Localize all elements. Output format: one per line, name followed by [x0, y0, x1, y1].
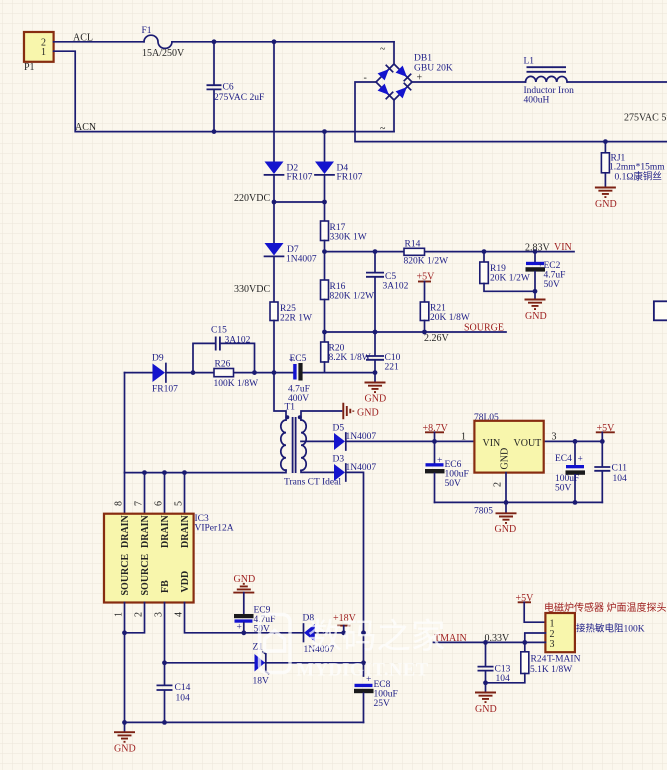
svg-text:MYDIGIT.NET: MYDIGIT.NET: [297, 661, 429, 681]
svg-text:7: 7: [134, 501, 145, 506]
junction C10/gnd row: [373, 370, 378, 375]
svg-text:SOURGE: SOURGE: [464, 323, 504, 334]
junction VIN row/C5: [373, 249, 378, 254]
svg-text:Trans CT Ideal: Trans CT Ideal: [284, 478, 341, 488]
wire SOURGE rail: [325, 331, 507, 333]
svg-text:GND: GND: [357, 408, 379, 419]
svg-text:SOURCE: SOURCE: [120, 553, 131, 595]
wire feedback row: [125, 373, 376, 473]
svg-text:~: ~: [380, 44, 386, 55]
watermark logo icon: [260, 615, 291, 673]
fuse F1: [142, 26, 186, 59]
svg-text:1.2mm*15mm: 1.2mm*15mm: [609, 162, 665, 172]
svg-text:400uH: 400uH: [524, 96, 550, 106]
connector J2 sensor: [545, 613, 575, 652]
svg-text:EC4: EC4: [555, 454, 572, 464]
capacitor C13: [478, 642, 511, 684]
junction D9/C15: [191, 370, 196, 375]
wire Z1 row: [165, 662, 364, 664]
junction drain pin7: [142, 470, 147, 475]
svg-text:R21: R21: [430, 304, 446, 314]
wire bottom ground rail: [125, 721, 364, 723]
junction VIN row/EC2: [533, 249, 538, 254]
junction VIN78 rail/EC6: [432, 439, 437, 444]
svg-text:+: +: [578, 455, 583, 465]
svg-text:8: 8: [114, 501, 125, 506]
svg-text:L1: L1: [524, 57, 535, 67]
wire IC3 bottom pins 1,2: [125, 603, 145, 723]
wire RJ1 top: [604, 142, 606, 153]
svg-text:C15: C15: [211, 326, 227, 336]
svg-text:50V: 50V: [555, 484, 572, 494]
junction ACL/D2: [272, 39, 277, 44]
junction VIN row/R17: [322, 249, 327, 254]
wire C10 gnd stem: [374, 373, 376, 382]
resistor R20: [321, 332, 371, 373]
svg-text:1: 1: [41, 47, 46, 58]
svg-text:221: 221: [385, 363, 400, 373]
svg-text:SOURCE: SOURCE: [140, 553, 151, 595]
junction gnd rail/EC4: [573, 500, 578, 505]
svg-text:3A102: 3A102: [225, 336, 251, 346]
ground GND under 7805: [495, 513, 517, 535]
ground GND under EC2: [525, 300, 547, 323]
svg-text:D9: D9: [152, 354, 164, 364]
svg-text:C13: C13: [495, 665, 511, 675]
svg-text:0.33V: 0.33V: [485, 633, 511, 644]
junction SOURGE/C10: [373, 330, 378, 335]
inductor L1: [524, 57, 575, 106]
svg-text:DRAIN: DRAIN: [180, 514, 191, 548]
resistor R26: [214, 360, 259, 390]
junction EC2/R19 gnd: [533, 289, 538, 294]
svg-text:20K 1/2W: 20K 1/2W: [490, 274, 530, 284]
junction 220VDC/D4: [322, 200, 327, 205]
wire bridge minus to neg rail: [355, 82, 667, 142]
junction VIN78 rail/EC4: [573, 439, 578, 444]
power port +5V at R21: [417, 272, 436, 303]
svg-text:5.1K 1/8W: 5.1K 1/8W: [530, 665, 572, 675]
wire bridge AC bottom: [393, 100, 395, 132]
svg-text:GND: GND: [365, 394, 387, 405]
resistor R17: [321, 221, 367, 252]
capacitor EC4: [555, 441, 585, 502]
svg-text:数码之家: 数码之家: [308, 618, 446, 656]
resistor R19: [480, 252, 535, 292]
svg-text:820K 1/2W: 820K 1/2W: [404, 256, 449, 266]
diode D5 1N4007: [333, 424, 377, 451]
svg-text:DRAIN: DRAIN: [120, 514, 131, 548]
resistor R14: [404, 240, 449, 267]
ground GND sideways at T1: [343, 403, 378, 420]
junction SOURGE/R16: [322, 330, 327, 335]
svg-text:FB: FB: [160, 580, 171, 593]
junction VDD/EC9: [241, 630, 246, 635]
junction ACN/D4: [322, 129, 327, 134]
junction neg rail/RJ1: [603, 139, 608, 144]
capacitor C6: [207, 42, 265, 132]
resistor R24 T-MAIN: [486, 652, 581, 683]
svg-text:+: +: [437, 456, 442, 466]
svg-text:50V: 50V: [254, 625, 271, 635]
svg-text:VIN: VIN: [554, 242, 572, 253]
wire 78L05 ground rail: [435, 501, 603, 503]
capacitor C15: [193, 326, 255, 373]
svg-text:220VDC: 220VDC: [234, 193, 270, 204]
junction Z1/18V column: [361, 660, 366, 665]
svg-text:2: 2: [134, 612, 145, 617]
svg-text:C5: C5: [385, 272, 396, 282]
svg-text:104: 104: [176, 694, 191, 704]
diode D8 1N4007: [303, 614, 344, 656]
diode D9 FR107: [152, 354, 178, 395]
svg-text:R25: R25: [280, 304, 296, 314]
svg-text:50V: 50V: [544, 280, 561, 290]
svg-text:5: 5: [174, 501, 185, 506]
svg-text:C11: C11: [612, 464, 628, 474]
svg-text:DRAIN: DRAIN: [160, 514, 171, 548]
ground GND bottom left: [114, 732, 136, 754]
junction drain pin6: [162, 470, 167, 475]
svg-text:FR107: FR107: [287, 173, 313, 183]
resistor R21: [420, 302, 470, 332]
capacitor C14: [157, 683, 191, 722]
wire 220VDC rail: [274, 201, 325, 203]
svg-text:1N4007: 1N4007: [346, 463, 377, 473]
svg-text:+: +: [237, 623, 242, 633]
svg-text:EC6: EC6: [445, 460, 462, 470]
svg-text:DB1: DB1: [414, 54, 432, 64]
resistor R25: [270, 302, 312, 373]
svg-text:VDD: VDD: [180, 571, 191, 593]
svg-text:100uF: 100uF: [445, 470, 469, 480]
svg-text:25V: 25V: [374, 699, 391, 709]
svg-text:1: 1: [461, 432, 466, 443]
wire FB column: [164, 603, 166, 686]
wire D4 anode: [324, 132, 326, 162]
svg-text:8.2K 1/8W: 8.2K 1/8W: [329, 353, 371, 363]
svg-text:1N4007: 1N4007: [346, 432, 377, 442]
svg-text:+: +: [538, 261, 543, 271]
regulator U2 78L05: [474, 413, 544, 473]
junction bottom rail/C14: [162, 720, 167, 725]
svg-text:D7: D7: [287, 245, 299, 255]
svg-text:~: ~: [380, 124, 386, 135]
svg-text:104: 104: [613, 474, 628, 484]
junction gnd rail/pin2: [504, 500, 509, 505]
svg-text:3: 3: [154, 612, 165, 617]
capacitor C5: [366, 252, 409, 332]
capacitor EC9: [234, 593, 275, 635]
svg-text:C6: C6: [223, 83, 234, 93]
wire T1 center tap: [301, 440, 334, 442]
junction C13/R24 gnd: [483, 680, 488, 685]
wire R17 top: [324, 202, 326, 221]
wire VIN row: [325, 251, 575, 253]
svg-text:20K 1/8W: 20K 1/8W: [430, 313, 470, 323]
power port +8.7V: [423, 423, 449, 441]
wire sensor pin2: [525, 633, 546, 652]
resistor R16: [321, 252, 375, 332]
svg-text:275VAC 2uF: 275VAC 2uF: [214, 93, 264, 103]
svg-text:1: 1: [114, 612, 125, 617]
svg-text:R16: R16: [330, 282, 346, 292]
junction TMAIN/R24: [522, 640, 527, 645]
svg-text:330K 1W: 330K 1W: [330, 233, 367, 243]
junction ACL/C6: [212, 39, 217, 44]
wire bridge AC top: [393, 42, 395, 64]
svg-text:GND: GND: [595, 199, 617, 210]
junction +5V C11 corner: [600, 439, 605, 444]
svg-text:ACL: ACL: [73, 33, 93, 44]
wire 78L05 pin2: [505, 473, 507, 503]
wire D5 to VIN78 rail: [346, 440, 603, 442]
wire D3 to 18V column: [346, 472, 364, 676]
bridge rectifier DB1 GBU 20K: [376, 54, 453, 101]
svg-text:VIPer12A: VIPer12A: [195, 524, 234, 534]
svg-text:T1: T1: [285, 403, 296, 413]
svg-text:F1: F1: [142, 26, 152, 36]
junction TMAIN/C13: [483, 640, 488, 645]
svg-text:2.83V: 2.83V: [525, 243, 551, 254]
svg-text:330VDC: 330VDC: [234, 284, 270, 295]
svg-text:D3: D3: [333, 455, 345, 465]
svg-text:1N4007: 1N4007: [286, 255, 317, 265]
svg-text:100uF: 100uF: [374, 690, 398, 700]
svg-text:GND: GND: [500, 448, 511, 470]
svg-text:100uF: 100uF: [555, 474, 579, 484]
svg-text:C10: C10: [385, 353, 401, 363]
wire L1 to right edge: [567, 81, 667, 83]
svg-text:P1: P1: [24, 62, 35, 73]
svg-text:R19: R19: [490, 264, 506, 274]
svg-text:3: 3: [550, 639, 555, 650]
svg-text:FR107: FR107: [337, 173, 363, 183]
ground GND above EC9: [233, 574, 255, 593]
wire T1 secondary top: [301, 411, 342, 420]
svg-text:100K 1/8W: 100K 1/8W: [214, 379, 259, 389]
svg-text:VOUT: VOUT: [514, 438, 542, 449]
svg-text:4.7uF: 4.7uF: [544, 271, 566, 281]
capacitor EC5: [288, 354, 310, 404]
svg-text:R20: R20: [329, 344, 345, 354]
capacitor EC6: [425, 441, 469, 502]
svg-text:DRAIN: DRAIN: [140, 514, 151, 548]
svg-text:EC8: EC8: [374, 680, 391, 690]
wire VDD row: [185, 603, 303, 633]
svg-text:3: 3: [552, 432, 557, 443]
svg-text:50V: 50V: [445, 479, 462, 489]
svg-text:IC3: IC3: [195, 514, 210, 524]
svg-text:3A102: 3A102: [383, 282, 409, 292]
wire IC3 top pins: [125, 473, 185, 514]
svg-text:15A/250V: 15A/250V: [142, 48, 185, 59]
diode D4 FR107: [315, 162, 363, 203]
junction ACN/C6: [212, 129, 217, 134]
ground GND under C13: [475, 693, 497, 716]
capacitor C10: [366, 332, 401, 373]
svg-text:VIN: VIN: [483, 438, 501, 449]
svg-text:R14: R14: [405, 240, 421, 250]
svg-text:GND: GND: [114, 744, 136, 755]
junction +18V: [341, 630, 346, 635]
wire drain rail: [125, 470, 287, 473]
capacitor C11: [594, 441, 627, 502]
svg-text:0.1Ω康铜丝: 0.1Ω康铜丝: [615, 170, 662, 182]
svg-text:104: 104: [496, 674, 511, 684]
resistor RJ1: [601, 153, 665, 187]
svg-text:R24: R24: [531, 655, 547, 665]
junction drain pin5: [182, 470, 187, 475]
svg-text:EC2: EC2: [544, 261, 561, 271]
transformer T1: [281, 403, 342, 488]
wire ACL net: [54, 41, 394, 43]
wire TMAIN row: [434, 641, 546, 643]
svg-text:2.26V: 2.26V: [424, 333, 450, 344]
svg-text:GND: GND: [475, 704, 497, 715]
wire bridge plus to L1: [412, 81, 526, 83]
op-amp IC3 VIPer12A: [104, 514, 234, 603]
svg-text:接热敏电阻100K: 接热敏电阻100K: [576, 623, 645, 635]
watermark text: [297, 618, 446, 681]
svg-text:T-MAIN: T-MAIN: [547, 655, 581, 665]
svg-text:FR107: FR107: [152, 385, 178, 395]
svg-text:18V: 18V: [253, 677, 270, 687]
wire D2 anode: [273, 42, 275, 162]
svg-text:820K 1/2W: 820K 1/2W: [330, 292, 375, 302]
junction SOURGE/R21: [422, 330, 427, 335]
svg-text:4: 4: [174, 612, 185, 617]
power port +5V sensor: [516, 593, 546, 622]
diode D2 FR107: [265, 162, 313, 203]
ground GND under C10: [365, 383, 387, 405]
power port +5V at C11: [596, 423, 615, 441]
svg-text:Inductor Iron: Inductor Iron: [524, 86, 575, 96]
svg-text:7805: 7805: [474, 507, 493, 517]
connector P1: [24, 32, 54, 73]
sheet port partial box: [654, 301, 667, 320]
svg-text:275VAC 5u: 275VAC 5u: [624, 113, 667, 124]
zener Z1 18V: [253, 643, 270, 687]
svg-text:2: 2: [493, 482, 504, 487]
junction 18V column: [361, 630, 366, 635]
junction primary node: [272, 370, 277, 375]
svg-text:GND: GND: [525, 311, 547, 322]
svg-text:6: 6: [154, 501, 165, 506]
wire EC2 gnd stem: [534, 291, 536, 299]
junction 220VDC/D2: [272, 200, 277, 205]
ground GND under RJ1: [595, 188, 617, 211]
diode D7 1N4007: [265, 243, 317, 302]
svg-text:R26: R26: [215, 360, 231, 370]
svg-text:C14: C14: [175, 683, 191, 693]
svg-text:EC5: EC5: [290, 354, 307, 364]
capacitor EC8: [354, 675, 398, 722]
junction C15/R26 right: [252, 370, 257, 375]
wire T1 secondary bottom: [301, 470, 334, 472]
capacitor EC2: [526, 252, 566, 292]
svg-text:R17: R17: [330, 223, 346, 233]
junction bottom rail/pin1: [122, 720, 127, 725]
wire bottom gnd stem: [124, 722, 126, 731]
transformer T1 primary top wire: [274, 373, 286, 420]
diode D3 1N4007: [333, 455, 377, 482]
svg-text:4.7uF: 4.7uF: [288, 385, 310, 395]
junction FB/Z1 row: [162, 660, 167, 665]
svg-text:D5: D5: [333, 424, 345, 434]
wire pin2 gnd stem: [505, 502, 507, 512]
wire ACN net: [54, 51, 394, 131]
wire C13 gnd stem: [485, 683, 487, 692]
junction source pins: [122, 630, 127, 635]
svg-text:GND: GND: [495, 524, 517, 535]
power port +18V: [333, 613, 357, 633]
svg-text:ACN: ACN: [75, 122, 96, 133]
junction VIN row/R19: [482, 249, 487, 254]
svg-text:22R 1W: 22R 1W: [280, 314, 312, 324]
wire D7 anode: [273, 202, 275, 243]
